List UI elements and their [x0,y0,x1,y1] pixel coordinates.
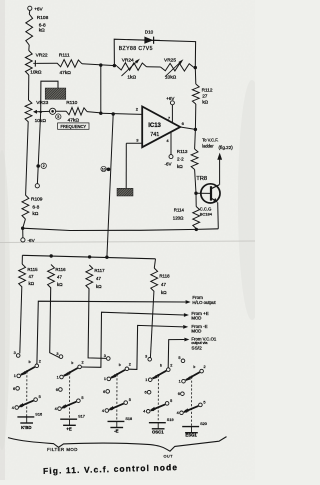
svg-text:3: 3 [56,352,58,356]
resistor R110 [66,108,87,116]
screen plate [45,88,66,99]
svg-text:R113: R113 [177,149,188,154]
switch S20 [181,359,185,363]
svg-text:MOD: MOD [191,329,201,334]
svg-text:-6V: -6V [28,238,36,243]
svg-text:2: 2 [129,363,131,367]
pin 4 -6V [170,133,172,155]
svg-text:2: 2 [39,360,41,364]
resistor R109 [22,195,29,219]
svg-text:6: 6 [145,391,147,395]
wire R110 to pin2 node [87,112,101,113]
wire diode loop [114,39,195,67]
svg-text:10: 10 [102,167,106,171]
svg-text:R110: R110 [66,100,77,106]
svg-text:1: 1 [145,378,147,382]
svg-text:MOD: MOD [191,315,201,320]
svg-text:TR8: TR8 [196,176,207,182]
svg-text:2: 2 [82,361,84,365]
wire R108 to VR22 [28,45,30,51]
svg-text:3: 3 [145,355,147,359]
svg-text:S17: S17 [78,415,85,419]
svg-text:4: 4 [12,406,14,410]
svg-text:R117: R117 [94,268,105,273]
svg-text:6: 6 [56,388,58,392]
op-amp IC13 741 [142,107,180,148]
resistor R113 [194,129,197,149]
collector wire to VCF [219,160,221,185]
resistor R111 [57,60,82,68]
svg-text:5: 5 [129,398,131,402]
svg-text:47kΩ: 47kΩ [60,70,72,76]
svg-text:R108: R108 [37,15,49,21]
svg-text:OSC1: OSC1 [152,430,164,435]
svg-text:5: 5 [170,399,172,403]
svg-text:5: 5 [203,400,205,404]
svg-text:IC13: IC13 [148,123,161,129]
svg-text:47: 47 [57,274,62,279]
FREQUENCY label [58,123,89,129]
svg-text:3: 3 [14,351,16,355]
svg-text:kΩ: kΩ [57,282,63,287]
svg-text:+6V: +6V [166,96,174,101]
bus wire [22,255,155,258]
trimmer VR25 [161,63,195,71]
svg-text:b: b [119,363,121,367]
svg-text:741: 741 [150,132,159,138]
svg-text:-6V: -6V [165,161,172,166]
resistor R117 [86,265,93,289]
svg-text:b: b [160,364,162,368]
svg-text:1kΩ: 1kΩ [127,75,136,81]
wire tag drop [37,112,40,184]
svg-text:2: 2 [43,164,45,168]
svg-text:47: 47 [96,276,101,281]
svg-text:4: 4 [177,411,179,415]
screen connection symbol [50,108,56,114]
junction VR25/R112/diode [194,66,197,69]
svg-text:ESG1: ESG1 [185,432,197,437]
resistor R116 [48,265,55,289]
junction -6V rail [21,227,24,230]
circled pin 5 [56,114,61,119]
wire R116 to S17 [50,288,61,358]
screen wire [41,81,58,112]
svg-text:BZY88 C7V5: BZY88 C7V5 [119,46,153,52]
resistor R112 [194,68,197,84]
resistor R118 [151,268,158,292]
diode D10 BZY88 C7V5 [138,39,145,41]
emitter wire [217,202,220,228]
svg-text:1: 1 [104,377,106,381]
wire +6V to R108 [28,11,31,15]
wiper of VR23 [33,110,37,114]
switch S18 [107,357,111,361]
svg-text:47: 47 [161,282,166,287]
svg-text:To V.C.F.: To V.C.F. [202,138,218,143]
potentiometer VR23 [25,100,32,122]
wire to R110 [56,110,66,112]
svg-text:1: 1 [179,380,181,384]
svg-text:kΩ: kΩ [32,211,38,217]
wire centre drop [107,114,113,257]
switch S17 [59,355,63,359]
wire VR24 to VR25 [147,66,161,68]
wire R109 to -6V [23,219,26,228]
circled pin 2 [41,163,46,168]
svg-text:27: 27 [202,94,208,99]
svg-text:kΩ: kΩ [96,284,102,289]
svg-text:VR25: VR25 [164,57,176,63]
wire from -E MOD [129,325,183,369]
svg-text:5: 5 [39,395,41,399]
junction bus centre drop [105,256,108,259]
svg-text:5: 5 [57,115,59,119]
junction centre drop [112,112,115,115]
svg-text:6-8: 6-8 [39,22,46,28]
svg-text:4: 4 [55,407,57,411]
svg-text:5: 5 [178,356,180,360]
trimmer VR24 [117,63,147,71]
open terminal wiper output [35,184,39,188]
svg-text:10kΩ: 10kΩ [30,69,42,75]
wire VR22 to VR23 [28,75,30,100]
svg-text:R112: R112 [202,87,213,92]
svg-text:6: 6 [103,390,105,394]
wire R118 to S19 [150,292,154,358]
junction tag point 10 [107,168,111,172]
svg-text:R114: R114 [174,207,185,212]
junction summing rail [99,63,102,66]
wire from VCO [168,340,184,368]
svg-text:2: 2 [170,363,172,367]
svg-text:+6V: +6V [34,6,43,11]
brace FILTER MOD [8,438,150,448]
svg-text:(fig.22): (fig.22) [219,145,234,150]
ground pin3 [117,188,133,196]
svg-text:47: 47 [29,274,34,279]
svg-text:BC184: BC184 [200,211,213,216]
svg-text:-E: -E [114,429,118,434]
wire R111 to VR24 [82,64,117,66]
wire from +E MOD [82,312,184,367]
caption [43,462,178,476]
circled pin 10 [101,166,106,171]
svg-text:VR22: VR22 [36,52,48,58]
junction bus R116 [50,254,53,257]
svg-text:VR23: VR23 [36,100,48,106]
svg-text:D10: D10 [145,29,154,34]
svg-text:FILTER MOD: FILTER MOD [47,447,78,452]
svg-text:VR24: VR24 [122,57,134,63]
svg-text:kΩ: kΩ [39,28,45,34]
-6V rail [23,228,219,230]
svg-text:2·2: 2·2 [177,157,184,162]
svg-text:kΩ: kΩ [177,164,183,169]
svg-text:S20: S20 [200,422,207,426]
svg-text:120Ω: 120Ω [173,216,184,221]
svg-text:output via: output via [191,341,208,345]
wire pin2 feed [101,113,142,114]
brace OUT [150,437,227,452]
resistor R115 [19,264,26,287]
pin 6 output [180,127,195,129]
resistor R114 [195,193,197,206]
svg-text:R116: R116 [55,267,66,272]
svg-text:FREQUENCY: FREQUENCY [60,124,86,129]
svg-text:SS/2: SS/2 [191,346,202,352]
svg-text:1: 1 [57,375,59,379]
svg-text:10kΩ: 10kΩ [165,75,177,81]
resistor R108 [26,14,33,45]
wire R115 to S16 [20,287,22,353]
svg-text:kΩ: kΩ [29,281,35,286]
svg-text:b: b [193,365,195,369]
svg-text:1: 1 [14,374,16,378]
svg-text:4: 4 [102,409,104,413]
svg-text:OUT: OUT [164,454,174,459]
potentiometer VR22 [25,51,32,76]
svg-text:S18: S18 [125,417,132,421]
svg-text:4: 4 [143,410,145,414]
wire VR23 to R109 [26,122,29,195]
svg-text:H/LO output: H/LO output [192,300,216,305]
svg-text:S19: S19 [167,418,174,422]
svg-text:S16: S16 [35,412,42,416]
svg-text:6·8: 6·8 [32,204,39,210]
wire VR22 wiper to R111 [37,62,57,64]
svg-text:ladder: ladder [202,144,214,149]
svg-text:R111: R111 [59,53,70,59]
svg-text:R118: R118 [159,274,170,279]
pin 3 wire [126,142,142,144]
svg-text:kΩ: kΩ [202,100,208,105]
switch S16 [16,354,20,358]
svg-text:6: 6 [13,387,15,391]
svg-text:+E: +E [66,427,72,432]
svg-text:K'BD: K'BD [21,425,31,430]
svg-text:5: 5 [81,396,83,400]
switch S19 [148,358,152,362]
svg-text:b: b [29,360,31,364]
transistor TR8 [196,192,211,194]
wire from H/LO [37,301,186,364]
junction diode loop left [113,64,116,67]
wire R117 to S18 [88,289,106,358]
svg-text:2: 2 [204,365,206,369]
junction TR8 base node [194,192,197,195]
junction pin2 node [99,112,102,115]
pin 7 +6V [171,105,173,123]
svg-text:6: 6 [178,392,180,396]
svg-text:b: b [71,361,73,365]
svg-text:R115: R115 [27,267,38,272]
junction op-amp output node [194,128,197,131]
junction tag point 2 [36,164,40,168]
-6V terminal [22,228,24,238]
svg-text:3: 3 [104,354,106,358]
+6V supply terminal [28,6,32,10]
svg-text:kΩ: kΩ [161,290,167,295]
wire rail to pin2 node [100,65,102,113]
svg-text:R109: R109 [31,197,43,203]
junction bus R117 [88,255,91,258]
